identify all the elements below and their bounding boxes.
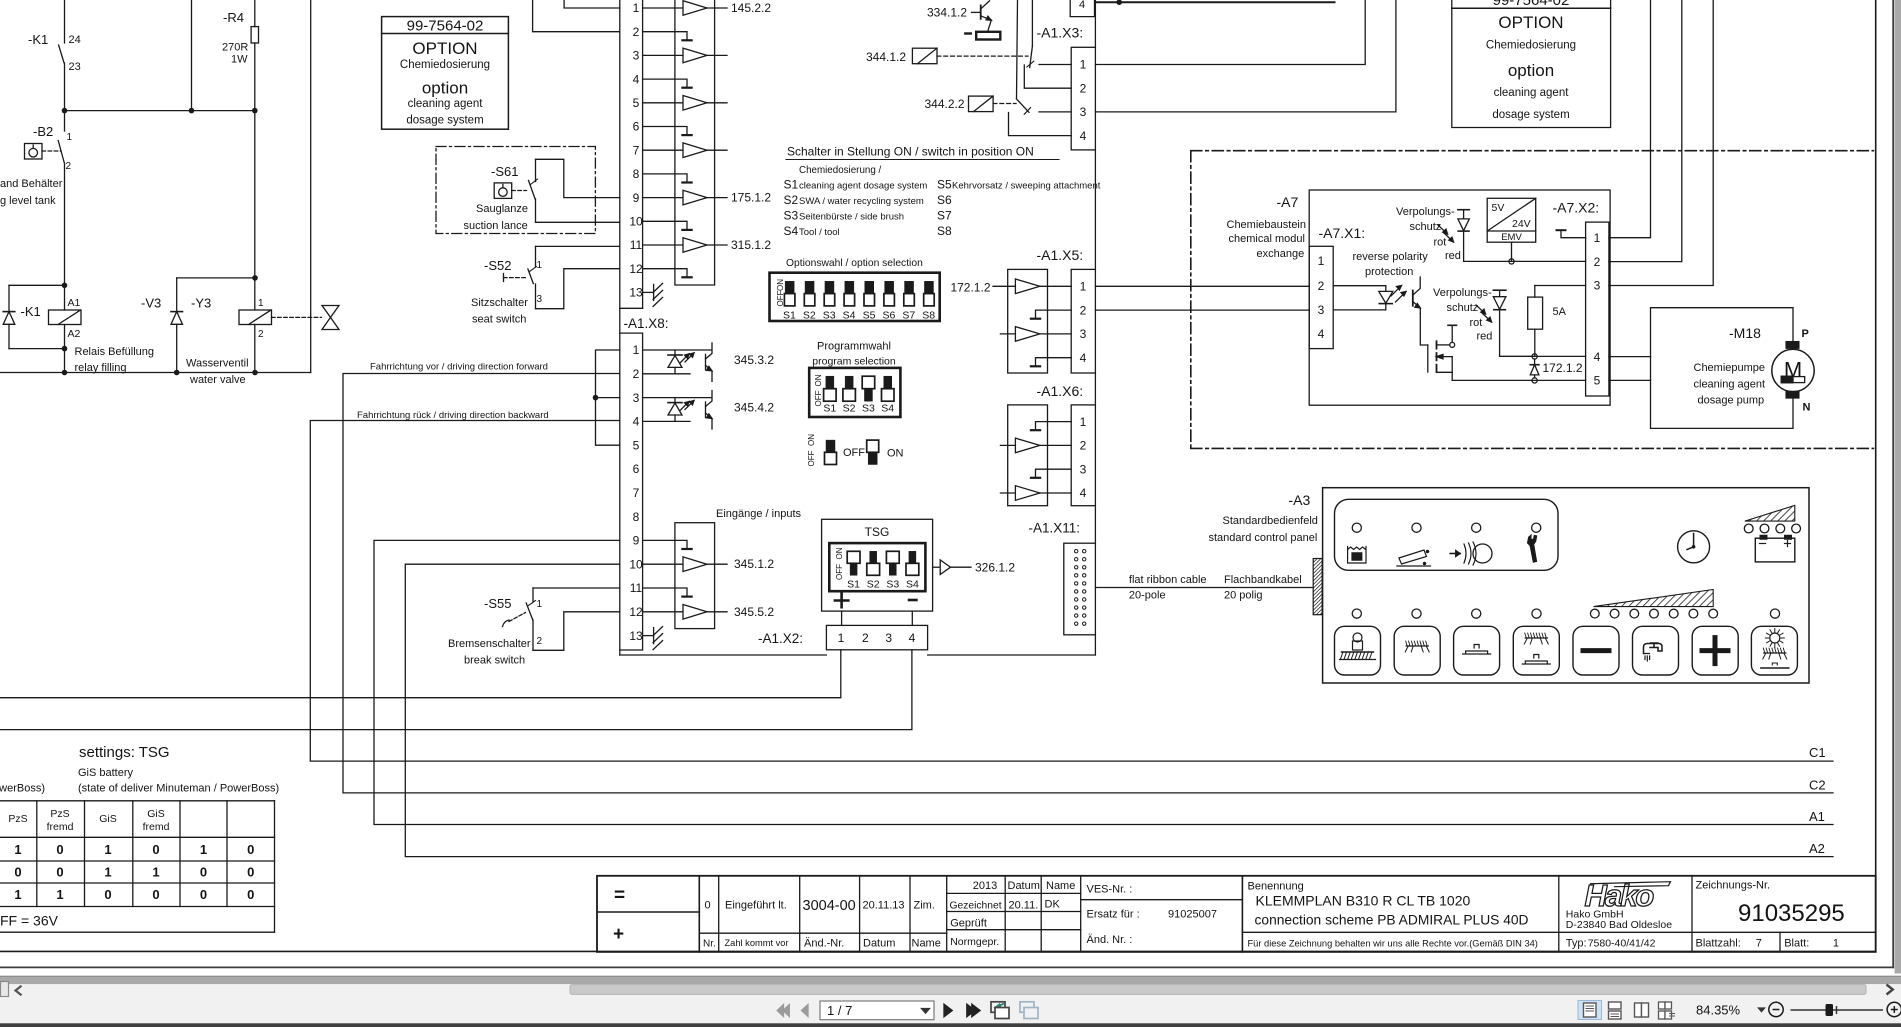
- wire X3 pin3 to top right (x1396): [1095, 0, 1396, 112]
- option region dash-dot boundary: [1191, 151, 1874, 449]
- svg-text:6: 6: [633, 462, 640, 476]
- common symbol at A1.X7 pin 2: [643, 32, 687, 40]
- wire S52 pin1 to X7 pin11: [536, 245, 620, 247]
- svg-text:=: =: [614, 885, 625, 906]
- diode V1 (flyback across K1 coil): [9, 284, 65, 286]
- vertical scrollbar track (right): [1895, 0, 1901, 974]
- node junction at (64.5,372.5): [62, 370, 68, 376]
- svg-text:S6: S6: [882, 309, 895, 321]
- minus terminal of TSG: [909, 599, 916, 602]
- icon suction turbine: [1450, 553, 1460, 555]
- svg-text:7: 7: [633, 486, 640, 500]
- contact -K1 (24/23): [59, 45, 64, 63]
- indicator LED 2 (top group): [1412, 523, 1421, 532]
- switch blade chain for X3 pin3: [1017, 0, 1018, 99]
- view mode two page scrolling: [1659, 1002, 1666, 1009]
- program LED 7: [1709, 609, 1718, 618]
- wire net A2: X8 pin10 down to bus A2: [405, 564, 1833, 856]
- svg-text:ON: ON: [887, 448, 904, 460]
- svg-text:D-23840 Bad Oldesloe: D-23840 Bad Oldesloe: [1566, 919, 1672, 931]
- wire TSG minus to A1.X2 pin4: [911, 611, 913, 625]
- optocoupler in A7: LED: [1333, 285, 1386, 287]
- controller A1 outer box left edge: [619, 0, 621, 655]
- wire vertical from top at x191.5: [191, 0, 193, 111]
- common symbol at A1.X7 pin 4: [643, 79, 687, 87]
- svg-text:Kehrvorsatz / sweeping attachm: Kehrvorsatz / sweeping attachment: [952, 181, 1101, 192]
- svg-text:exchange: exchange: [1257, 248, 1305, 260]
- svg-text:2: 2: [537, 636, 543, 647]
- svg-text:Normgepr.: Normgepr.: [950, 936, 999, 948]
- battery LED 4: [1792, 524, 1801, 533]
- svg-text:99-7564-02: 99-7564-02: [1493, 0, 1570, 9]
- indicator LED 1 (top group): [1352, 523, 1361, 532]
- common symbol at X5 pin4: [1036, 358, 1072, 366]
- svg-text:owerBoss): owerBoss): [0, 783, 45, 795]
- buffer at X6 pin2: [1000, 444, 1015, 446]
- svg-text:-V3: -V3: [141, 296, 161, 311]
- next view button (disabled): [1020, 1002, 1034, 1013]
- svg-text:5A: 5A: [1553, 306, 1567, 318]
- svg-text:water valve: water valve: [189, 374, 246, 386]
- button LED above btn8: [1770, 609, 1779, 618]
- svg-text:S5: S5: [937, 178, 952, 192]
- toolbar row background: [0, 997, 1901, 1023]
- svg-text:Verpolungs-: Verpolungs-: [1396, 206, 1455, 218]
- svg-text:Chemiebaustein: Chemiebaustein: [1227, 219, 1307, 231]
- connector column A1.X3: [1071, 47, 1095, 150]
- DIP switch S1 (option selection, ON): [785, 281, 794, 293]
- connector column A1.X7 (top, cut): [642, 0, 644, 308]
- svg-text:-S52: -S52: [484, 258, 511, 273]
- svg-text:0: 0: [247, 887, 254, 902]
- svg-text:4: 4: [1080, 129, 1087, 143]
- buffer box of A1.X5: [1008, 269, 1048, 373]
- svg-text:flat ribbon cable: flat ribbon cable: [1129, 574, 1207, 586]
- node junction at (255,372.5): [252, 370, 258, 376]
- svg-text:4: 4: [1080, 486, 1087, 500]
- DIP switch box option selection: [770, 273, 940, 321]
- navigation pane grip square: [1, 982, 9, 997]
- svg-text:Verpolungs-: Verpolungs-: [1433, 287, 1492, 299]
- svg-text:2: 2: [66, 161, 72, 172]
- svg-text:Tool / tool: Tool / tool: [799, 227, 840, 238]
- svg-text:Seitenbürste / side brush: Seitenbürste / side brush: [799, 212, 904, 223]
- svg-text:Zim.: Zim.: [914, 900, 935, 912]
- button LED above btn2: [1412, 609, 1421, 618]
- svg-text:A2: A2: [1809, 841, 1825, 856]
- DIP switch S3 (option selection, ON): [825, 281, 834, 293]
- fuse 5A: [1534, 286, 1536, 298]
- battery charge wedge (hatched): [1745, 505, 1795, 521]
- svg-text:Chemiedosierung /: Chemiedosierung /: [799, 165, 882, 176]
- wire S61 top to X7 pin9: [536, 159, 620, 197]
- svg-text:-R4: -R4: [223, 10, 244, 25]
- button LED above btn4: [1532, 609, 1541, 618]
- window bottom dark bar: [0, 1023, 1901, 1027]
- svg-text:-A3: -A3: [1289, 492, 1311, 508]
- zoom out button: [1769, 1002, 1783, 1016]
- wire S61 bottom to X7 pin10: [536, 221, 620, 223]
- svg-text:3: 3: [633, 49, 640, 63]
- button LED above btn1: [1352, 609, 1361, 618]
- wire converter to X2 pin2 line: [1511, 242, 1513, 261]
- junction ring at converter/pin2: [1509, 259, 1514, 264]
- svg-text:1: 1: [633, 1, 640, 15]
- svg-text:24: 24: [69, 34, 81, 46]
- svg-text:-K1: -K1: [21, 304, 41, 319]
- icon minus (btn5): [1583, 648, 1609, 653]
- buffer box of A1.X6: [1008, 405, 1048, 506]
- view mode single page (selected): [1578, 1001, 1602, 1020]
- svg-text:Programmwahl: Programmwahl: [817, 341, 891, 353]
- next page button: [944, 1004, 952, 1017]
- svg-text:4: 4: [633, 415, 640, 429]
- svg-text:9: 9: [633, 534, 640, 548]
- svg-text:91025007: 91025007: [1168, 909, 1217, 921]
- icon service wrench: [1527, 535, 1537, 563]
- svg-text:connection scheme PB ADMIRAL P: connection scheme PB ADMIRAL PLUS 40D: [1255, 913, 1529, 928]
- common symbol at X2 pin1: [1561, 231, 1586, 238]
- buffer at X6 pin4: [1000, 492, 1015, 494]
- chassis ground at A1.X7 pin 13: [643, 291, 654, 293]
- svg-text:schutz: schutz: [1447, 302, 1479, 314]
- indicator group rounded box: [1335, 499, 1559, 570]
- ribbon connector hatched block: [1313, 559, 1322, 615]
- switch blade chain for X3 pin1: [1031, 0, 1033, 46]
- svg-text:326.1.2: 326.1.2: [975, 561, 1015, 575]
- svg-text:fremd: fremd: [143, 821, 170, 833]
- svg-text:4: 4: [1079, 0, 1085, 11]
- connector A1.X11 (20-pole): [1064, 543, 1096, 635]
- svg-text:-A1.X8:: -A1.X8:: [624, 316, 669, 331]
- wire S52 pin3 to X7 pin12: [536, 269, 620, 309]
- svg-text:Sitzschalter: Sitzschalter: [471, 297, 528, 309]
- program LED 3: [1630, 609, 1639, 618]
- node junction X8 pin3 bracket: [593, 395, 599, 401]
- drawing frame right line: [1875, 0, 1877, 951]
- buffer at X8 pin12: [643, 611, 683, 613]
- svg-text:13: 13: [629, 286, 643, 300]
- svg-text:3: 3: [1318, 303, 1325, 317]
- svg-text:1 / 7: 1 / 7: [827, 1003, 852, 1018]
- wire bracket X8 pins 1-5: [596, 350, 620, 445]
- connector A1.X2 pin box: [826, 625, 927, 649]
- DIP switch S2 (program selection, ON): [845, 376, 853, 389]
- gray band below page: [0, 977, 1901, 984]
- drawing frame bottom line: [0, 950, 1876, 952]
- MOSFET body arrow: [1437, 356, 1453, 358]
- svg-text:1: 1: [67, 132, 73, 143]
- program LED 4: [1650, 609, 1659, 618]
- svg-text:S3: S3: [784, 209, 799, 223]
- DIP switch S1 (program selection, ON): [826, 376, 834, 389]
- svg-text:2: 2: [633, 367, 640, 381]
- option info box 99-7564-02 (right): [1452, 0, 1611, 128]
- zoom in button: [1887, 1002, 1901, 1016]
- svg-text:7: 7: [633, 143, 640, 157]
- svg-text:cleaning agent dosage system: cleaning agent dosage system: [799, 181, 927, 192]
- TSG settings box: [822, 519, 933, 611]
- legend switch ON sample: [867, 440, 879, 452]
- wire X2 pin4 line: [1500, 355, 1586, 357]
- svg-text:2: 2: [1080, 439, 1087, 453]
- svg-text:standard control panel: standard control panel: [1209, 532, 1318, 544]
- program wedge (hatched): [1594, 590, 1714, 607]
- svg-text:12: 12: [629, 605, 643, 619]
- svg-text:1: 1: [537, 599, 543, 610]
- svg-text:Schalter in Stellung ON / swit: Schalter in Stellung ON / switch in posi…: [787, 145, 1034, 159]
- svg-text:0: 0: [14, 864, 21, 879]
- scrollbar right arrow: [1887, 985, 1893, 995]
- svg-text:0: 0: [247, 864, 254, 879]
- svg-text:N: N: [1803, 402, 1811, 414]
- svg-text:Datum: Datum: [863, 938, 895, 950]
- svg-text:4: 4: [1080, 351, 1087, 365]
- svg-text:0: 0: [705, 900, 711, 912]
- svg-text:172.1.2: 172.1.2: [950, 281, 990, 295]
- svg-text:(state of deliver Minuteman /: (state of deliver Minuteman / PowerBoss): [78, 783, 279, 795]
- svg-text:rot: rot: [1434, 237, 1447, 249]
- svg-text:-A7.X2:: -A7.X2:: [1553, 200, 1600, 216]
- svg-text:+: +: [613, 924, 624, 945]
- wire fuse top to X2 pin3: [1535, 285, 1586, 287]
- wire net C2: forward line to X8 pin2 and down to bus C2: [343, 374, 1833, 793]
- svg-text:ON: ON: [807, 434, 816, 446]
- svg-text:315.1.2: 315.1.2: [731, 238, 771, 252]
- svg-text:Änd. Nr. :: Änd. Nr. :: [1087, 934, 1133, 946]
- wire X7 pin1 stub up: [564, 0, 620, 8]
- svg-text:1: 1: [104, 864, 111, 879]
- svg-text:suction lance: suction lance: [464, 220, 528, 232]
- panel button 1: [1335, 626, 1381, 675]
- svg-text:-S55: -S55: [484, 596, 511, 611]
- last page button: [967, 1004, 975, 1017]
- panel button 5: [1573, 626, 1619, 675]
- svg-text:10: 10: [629, 215, 643, 229]
- node junction at (64.5,110.6): [62, 108, 68, 114]
- connector column A1.X8: [620, 333, 643, 650]
- svg-text:344.1.2: 344.1.2: [866, 50, 906, 64]
- svg-text:rot: rot: [1470, 317, 1483, 329]
- node junction at (176.7,372.5): [174, 370, 180, 376]
- inputs box on A1.X8: [675, 523, 715, 629]
- svg-text:1: 1: [258, 298, 264, 309]
- option dash-dot box around S61: [436, 147, 595, 234]
- svg-text:20.11.13: 20.11.13: [863, 900, 905, 912]
- svg-text:3: 3: [633, 391, 640, 405]
- svg-text:1: 1: [1080, 415, 1087, 429]
- svg-text:1: 1: [104, 842, 111, 857]
- svg-text:-A1.X6:: -A1.X6:: [1037, 383, 1084, 399]
- panel button 3: [1454, 626, 1500, 675]
- MOSFET source to X2 pin5 wire: [1437, 372, 1453, 380]
- svg-text:20 polig: 20 polig: [1224, 590, 1263, 602]
- DIP switch S6 (option selection, ON): [885, 281, 894, 293]
- svg-text:OFF: OFF: [814, 390, 823, 406]
- svg-text:PzS: PzS: [50, 808, 69, 820]
- view mode scrolling: [1609, 1002, 1622, 1009]
- svg-text:-A1.X3:: -A1.X3:: [1037, 25, 1084, 41]
- svg-text:10: 10: [629, 557, 643, 571]
- svg-text:-A7.X1:: -A7.X1:: [1319, 225, 1366, 241]
- motor M18 symbol: [1786, 341, 1800, 348]
- program LED 2: [1610, 609, 1619, 618]
- svg-text:schutz: schutz: [1410, 221, 1442, 233]
- connector column A7.X1: [1309, 246, 1333, 348]
- buffer at A1.X7 pin 7: [643, 149, 683, 151]
- svg-text:1: 1: [14, 842, 21, 857]
- zoom dropdown caret: [1759, 1008, 1765, 1012]
- icon brush + squeegee (btn4): [1525, 637, 1547, 639]
- DIP switch S4 (option selection, ON): [845, 281, 854, 293]
- svg-text:Gezeichnet: Gezeichnet: [950, 901, 1002, 912]
- wire phototransistor emitter to MOSFET gate: [1420, 314, 1428, 346]
- wire bus - (y729.6) to A1.X2 pin4: [0, 650, 912, 730]
- wire X5 pin2 to A7.X1 pin3: [1095, 309, 1309, 311]
- valve symbol (water valve): [272, 316, 322, 318]
- wire TSG plus to A1.X2 pin1: [841, 611, 843, 625]
- indicator LED 4 (top group): [1532, 523, 1541, 532]
- connector column A1.X6: [1071, 405, 1095, 506]
- svg-text:Optionswahl / option selection: Optionswahl / option selection: [786, 258, 923, 269]
- svg-text:20.11.: 20.11.: [1009, 900, 1039, 912]
- icon polish mode (btn8): [1770, 633, 1780, 643]
- svg-text:Für diese Zeichnung behalten w: Für diese Zeichnung behalten wir uns all…: [1248, 939, 1538, 949]
- optocoupler input at X8 pins 3-4: [643, 397, 712, 399]
- DIP switch box program selection: [809, 368, 900, 417]
- svg-text:OPTION: OPTION: [412, 39, 477, 58]
- node junction at (254.8,110.6): [252, 108, 258, 114]
- svg-text:GiS: GiS: [147, 808, 165, 820]
- connector column A1.X5: [1071, 269, 1095, 373]
- svg-text:6: 6: [633, 120, 640, 134]
- svg-text:S5: S5: [863, 309, 876, 321]
- svg-text:4: 4: [1594, 350, 1601, 364]
- panel button 2: [1394, 626, 1440, 675]
- arrows to LED lower: [1476, 305, 1486, 314]
- svg-text:dosage system: dosage system: [1492, 109, 1569, 121]
- icon water tap (btn6): [1644, 643, 1663, 654]
- svg-text:S1: S1: [784, 178, 799, 192]
- svg-text:red: red: [1477, 331, 1493, 343]
- wire net A1: X8 pin9 down to bus A1: [374, 540, 1833, 824]
- svg-text:2: 2: [258, 329, 264, 340]
- svg-text:S2: S2: [867, 579, 880, 591]
- optocoupler input at X8 pins 1-2: [643, 349, 712, 351]
- wire vertical from top at x310.7 to bus: [310, 0, 312, 373]
- svg-text:1: 1: [1594, 231, 1601, 245]
- page right edge: [1892, 0, 1894, 967]
- MOSFET drain terminal: [1450, 342, 1455, 347]
- svg-text:-K1: -K1: [28, 32, 48, 47]
- svg-text:S2: S2: [784, 193, 799, 207]
- DIP switch S1 (TSG, OFF): [847, 551, 860, 563]
- svg-text:345.5.2: 345.5.2: [734, 605, 774, 619]
- svg-text:2: 2: [1318, 279, 1325, 293]
- svg-text:1: 1: [838, 631, 845, 645]
- svg-text:cleaning agent: cleaning agent: [408, 98, 484, 110]
- settings table grid: [0, 801, 275, 932]
- svg-text:settings: TSG: settings: TSG: [79, 744, 170, 761]
- Blattzahl cells: [1779, 932, 1781, 952]
- program LED 6: [1689, 609, 1698, 618]
- svg-text:1: 1: [152, 864, 159, 879]
- wire flat ribbon cable: [1095, 587, 1313, 589]
- svg-text:-Y3: -Y3: [191, 296, 211, 311]
- wire X2 pin3 up: [1609, 0, 1713, 286]
- svg-text:Blattzahl:: Blattzahl:: [1696, 938, 1741, 950]
- svg-text:334.1.2: 334.1.2: [927, 6, 967, 20]
- svg-text:0: 0: [104, 887, 111, 902]
- drawn/checked table: [1005, 876, 1080, 952]
- DIP switch S4 (program selection, ON): [884, 376, 892, 389]
- svg-text:270R: 270R: [222, 42, 248, 54]
- svg-text:dosage pump: dosage pump: [1698, 395, 1765, 407]
- svg-text:0: 0: [200, 864, 207, 879]
- svg-text:-S61: -S61: [491, 164, 518, 179]
- svg-text:S1: S1: [847, 579, 860, 591]
- icon scrub brush with holder (btn1): [1353, 633, 1362, 642]
- svg-text:9: 9: [633, 191, 640, 205]
- svg-text:Fahrrichtung rück / driving di: Fahrrichtung rück / driving direction ba…: [357, 410, 549, 421]
- svg-text:S7: S7: [902, 309, 915, 321]
- svg-text:145.2.2: 145.2.2: [731, 1, 771, 15]
- svg-text:C2: C2: [1809, 778, 1826, 793]
- svg-text:ON: ON: [835, 547, 844, 559]
- clock symbol: [1678, 531, 1710, 563]
- wire X2 pin2 line: [1464, 260, 1586, 262]
- svg-text:3: 3: [1080, 462, 1087, 476]
- svg-text:and Behälter: and Behälter: [0, 178, 63, 190]
- buffer at A1.X7 pin 5: [643, 102, 683, 104]
- resistor R4: [254, 0, 256, 27]
- svg-text:Flachbandkabel: Flachbandkabel: [1224, 574, 1302, 586]
- svg-text:0: 0: [152, 887, 159, 902]
- svg-text:Ersatz für :: Ersatz für :: [1087, 909, 1140, 921]
- svg-text:7: 7: [1756, 938, 1762, 950]
- svg-text:OFF: OFF: [843, 447, 865, 459]
- buffer at A1.X7 pin 9: [643, 197, 683, 199]
- svg-text:11: 11: [630, 238, 643, 252]
- wire bus + (y697.7) to A1.X2 pin1: [0, 650, 841, 698]
- scrollbar left arrow: [16, 986, 22, 995]
- icon squeegee (btn3): [1463, 645, 1491, 655]
- svg-text:Zahl kommt vor: Zahl kommt vor: [725, 938, 789, 948]
- junction ring at (1534.6,380.4): [1532, 378, 1537, 383]
- svg-text:OFF: OFF: [807, 450, 816, 466]
- svg-text:4: 4: [633, 72, 640, 86]
- wire at top edge y2.2 (from A1.X4 above): [1097, 1, 1335, 3]
- svg-text:DK: DK: [1045, 899, 1061, 911]
- svg-text:0: 0: [247, 842, 254, 857]
- wire X2 pin2 up: [1609, 0, 1682, 262]
- svg-text:red: red: [1445, 250, 1461, 262]
- common symbol at X8 pin11: [643, 588, 687, 596]
- bracket X3 pin4: [1009, 113, 1072, 136]
- buffer at A1.X7 pin 1: [643, 7, 683, 9]
- svg-text:program selection: program selection: [812, 356, 896, 368]
- svg-text:3: 3: [885, 631, 892, 645]
- diode net 172.1.2 in A7: [1534, 359, 1536, 365]
- wire horizontal bus y110.6: [65, 110, 255, 112]
- DIP switch S7 (option selection, ON): [905, 281, 914, 293]
- svg-text:Chemiedosierung: Chemiedosierung: [400, 59, 490, 71]
- svg-text:23: 23: [69, 61, 81, 73]
- svg-text:S6: S6: [937, 193, 952, 207]
- power converter box 5V/24V/EMV: [1487, 198, 1536, 242]
- page number box: [820, 1001, 934, 1020]
- node junction at (64.5,285.3): [62, 283, 68, 289]
